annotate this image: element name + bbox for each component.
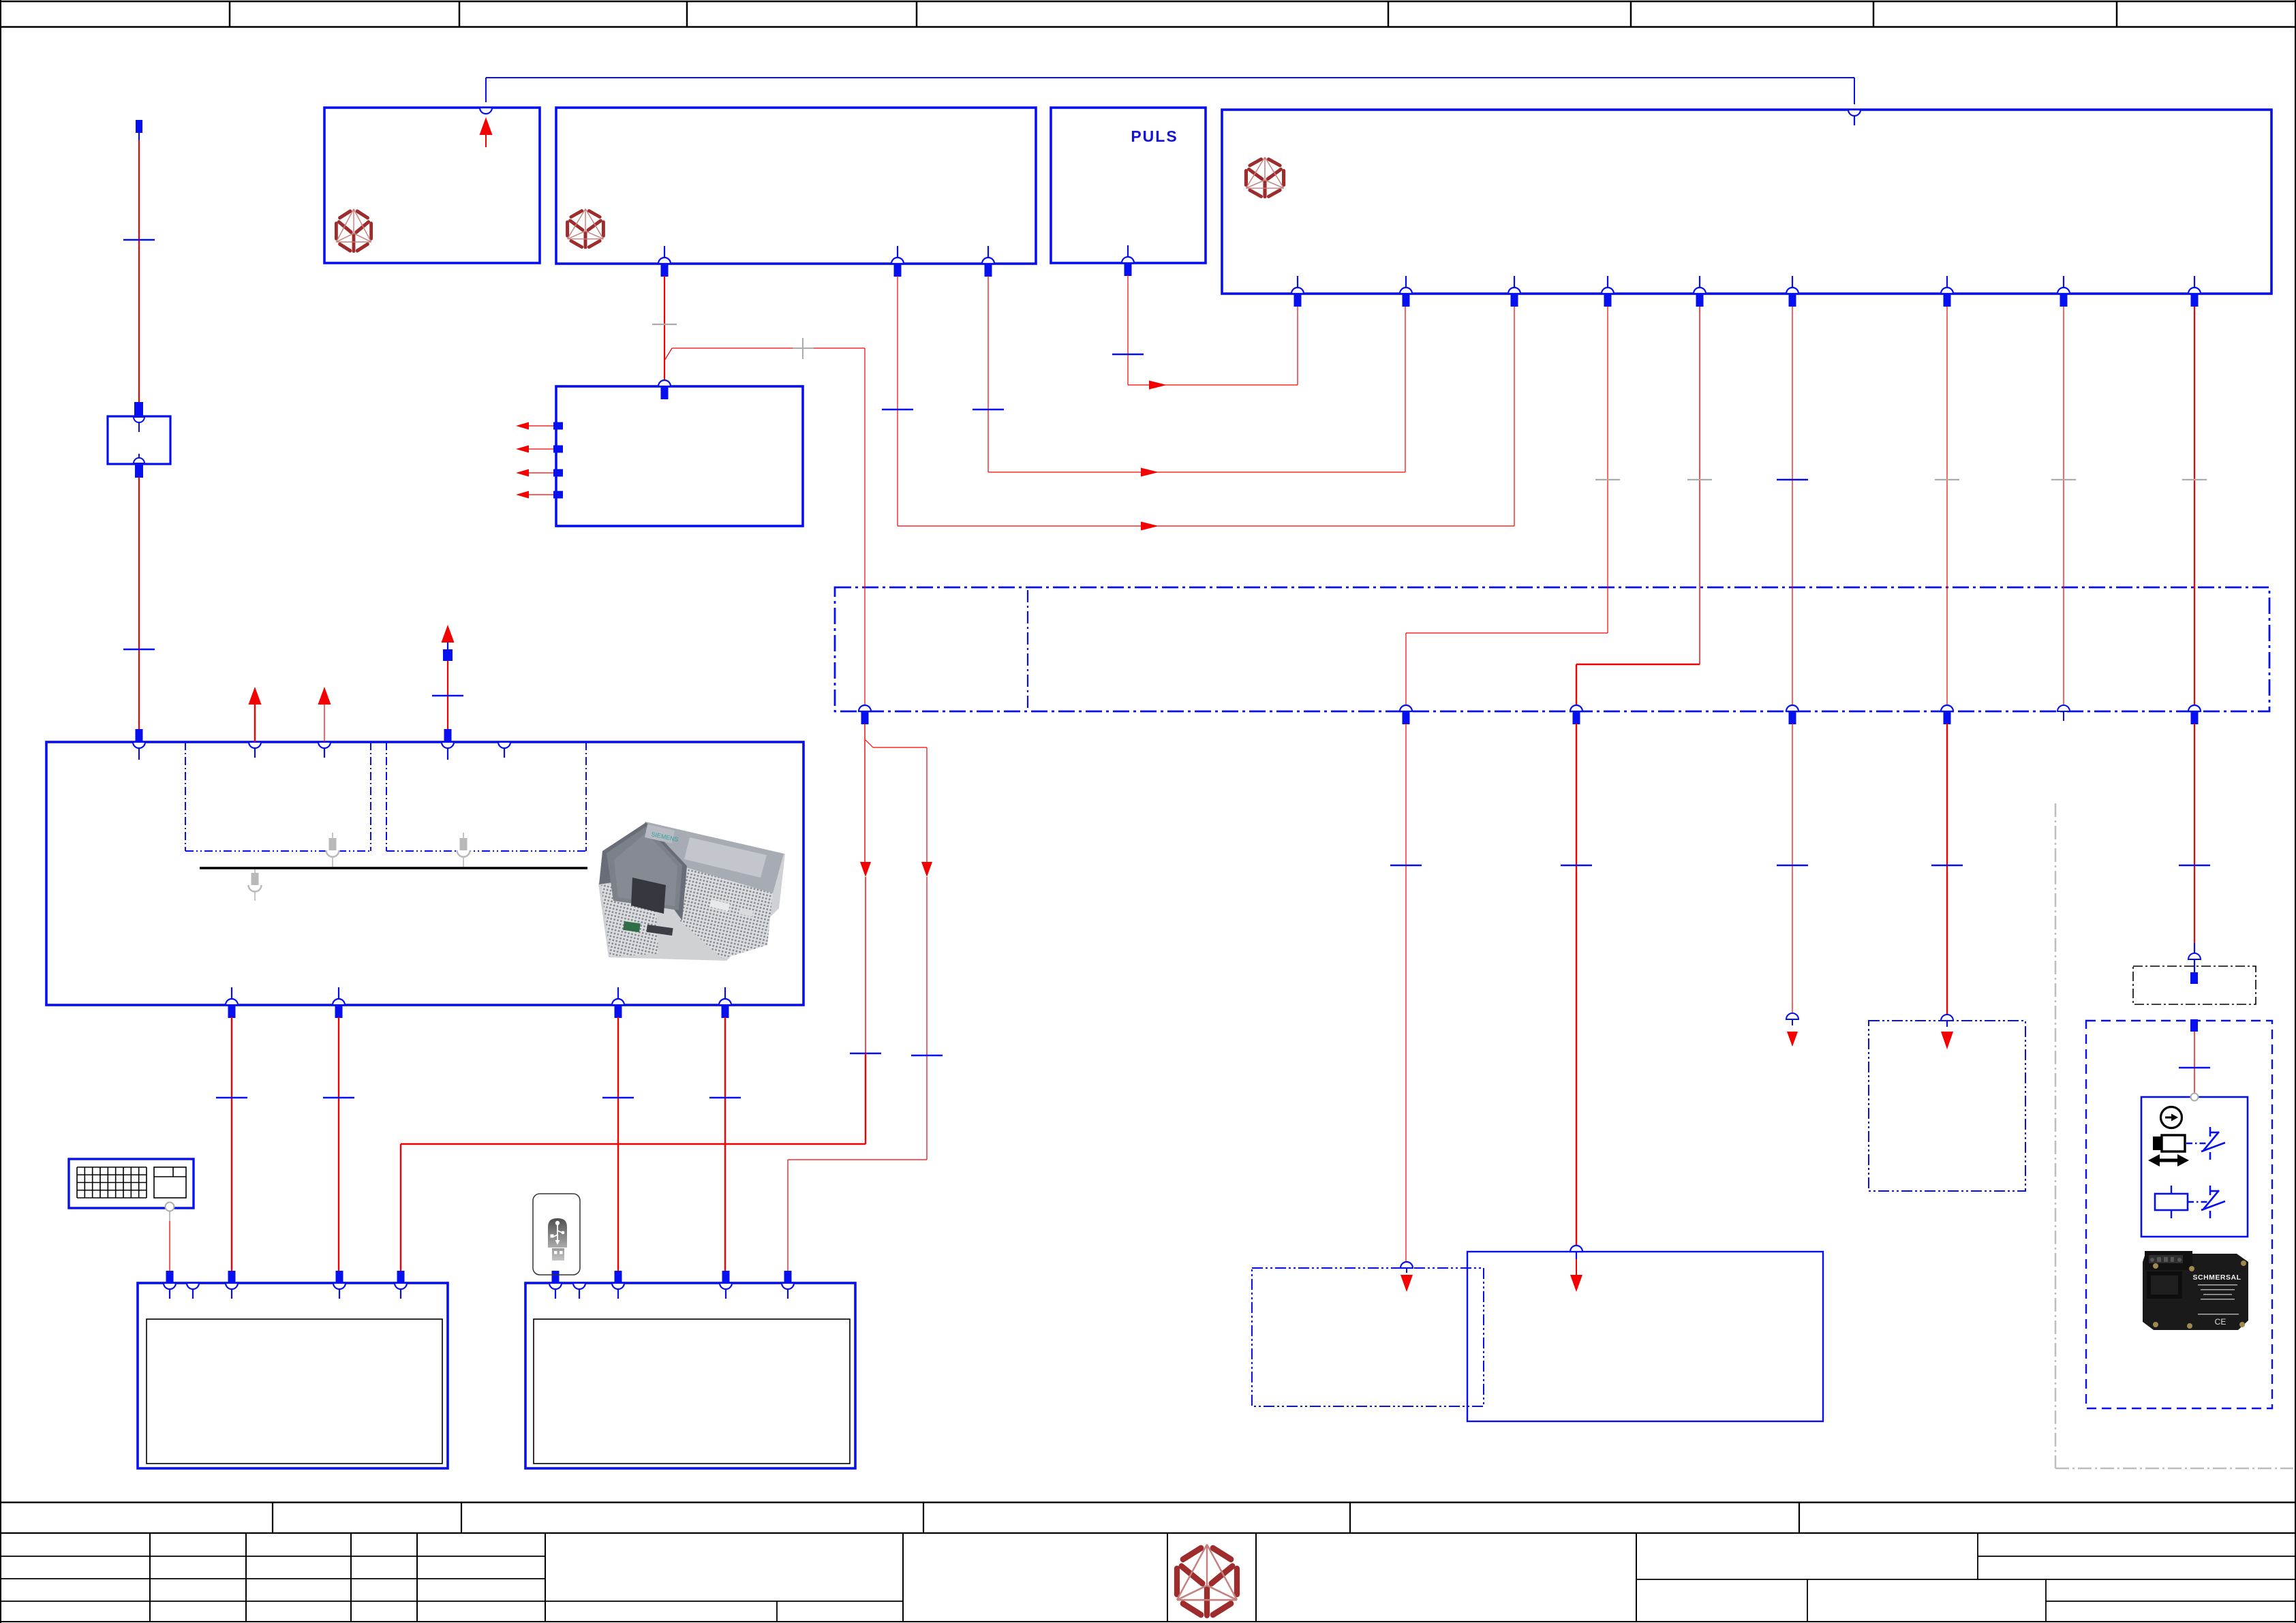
svg-text:SCHMERSAL: SCHMERSAL (2192, 1273, 2241, 1282)
svg-text:CE: CE (2215, 1317, 2226, 1327)
svg-text:PULS: PULS (1131, 127, 1178, 145)
